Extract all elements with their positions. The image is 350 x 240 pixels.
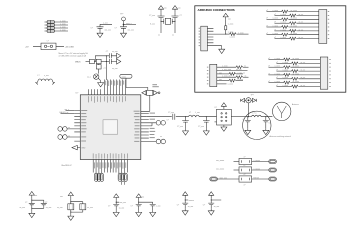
svg-text:xx_xxxx: xx_xxxx bbox=[291, 10, 297, 12]
svg-text:xxx: xxx bbox=[60, 196, 63, 198]
J1 pin stubs bbox=[207, 28, 225, 45]
pad pair P3 bbox=[156, 121, 165, 126]
svg-text:x_xxxx: x_xxxx bbox=[280, 22, 286, 24]
junction cluster2 bottom bbox=[70, 212, 71, 213]
J4 row 7 labels bbox=[268, 81, 299, 83]
power cluster 5 bbox=[183, 192, 188, 199]
J3 row 3 bbox=[217, 73, 243, 76]
svg-text:x?: x? bbox=[274, 14, 276, 16]
pad pair P2 bbox=[58, 135, 67, 140]
wire TP1 net bbox=[124, 24, 137, 26]
solder jumper J6 row 2 bbox=[45, 23, 69, 26]
capacitor C18 bbox=[208, 203, 214, 205]
svg-text:C?: C? bbox=[108, 206, 110, 208]
capacitor C1 bbox=[97, 24, 113, 31]
svg-text:xxx: xxx bbox=[178, 8, 181, 10]
J2 row 8 bbox=[275, 37, 319, 40]
svg-text:xx_xx: xx_xx bbox=[299, 14, 304, 16]
svg-text:x_xxxxx: x_xxxxx bbox=[253, 160, 260, 162]
svg-text:RX/TX: RX/TX bbox=[254, 177, 260, 179]
wire cluster1 bbox=[32, 198, 44, 211]
MCU left pins bbox=[67, 111, 80, 142]
U1 exposed pad bbox=[103, 120, 118, 134]
svg-text:C?: C? bbox=[243, 119, 245, 121]
solder jumper J8 row 4 bbox=[45, 29, 69, 32]
J2 row 4 labels bbox=[274, 22, 303, 24]
svg-text:x_xxxx: x_xxxx bbox=[272, 25, 278, 27]
junction cluster1 bottom bbox=[31, 208, 32, 209]
svg-text:x_xxxx: x_xxxx bbox=[60, 29, 66, 31]
solder jumper J5 row 1 bbox=[45, 20, 69, 23]
wire bus line 6 bbox=[119, 80, 121, 95]
svg-text:C?_xxx: C?_xxx bbox=[168, 112, 174, 114]
wire FB1-FB2 bbox=[94, 61, 96, 63]
ground cluster6 bbox=[208, 209, 214, 215]
svg-text:xxx: xxx bbox=[164, 8, 167, 10]
svg-text:ARDUINO CONNECTORS: ARDUINO CONNECTORS bbox=[198, 8, 235, 12]
svg-text:xx_xxx: xx_xxx bbox=[214, 206, 220, 208]
ground under C8 bbox=[245, 128, 251, 134]
capacitor C16 bbox=[150, 204, 156, 206]
svg-text:xxxx_xxx: xxxx_xxx bbox=[220, 177, 227, 179]
node VBUS_F bbox=[106, 61, 107, 62]
capacitor C12 box bbox=[68, 204, 74, 210]
transistor Q1 bbox=[94, 74, 99, 79]
ground cluster2 bbox=[68, 214, 74, 220]
svg-text:xxx: xxx bbox=[142, 196, 145, 198]
capacitor C15 bbox=[136, 204, 142, 206]
svg-text:C?_xxx: C?_xxx bbox=[149, 15, 155, 17]
node N4 bbox=[265, 116, 266, 117]
power arrow J1 bbox=[223, 13, 228, 20]
svg-text:C?: C? bbox=[203, 205, 205, 207]
MCU bottom pin names bbox=[93, 153, 128, 158]
wire bus line 1 bbox=[104, 80, 106, 95]
wire XTAL left 1 bbox=[66, 110, 75, 112]
svg-text:x_xxxx: x_xxxx bbox=[282, 77, 288, 79]
svg-text:x?: x? bbox=[276, 85, 278, 87]
pad row right bbox=[118, 173, 127, 181]
svg-text:xx_x: xx_x bbox=[87, 77, 91, 79]
wire bus line 3 bbox=[110, 80, 112, 95]
capacitor C20 series bbox=[109, 59, 116, 64]
capacitor C2 bbox=[120, 27, 127, 31]
svg-text:xx_xxxx: xx_xxxx bbox=[291, 25, 297, 27]
wire P3 bbox=[151, 123, 153, 126]
node C8 bbox=[247, 116, 248, 117]
wire TP2 down bbox=[248, 103, 250, 117]
ferrite bead FB1 bbox=[90, 59, 95, 63]
svg-text:C?: C? bbox=[167, 119, 169, 121]
svg-text:x?: x? bbox=[276, 62, 278, 64]
svg-text:L?: L? bbox=[189, 112, 191, 114]
MCU left pin names bbox=[81, 110, 87, 142]
svg-text:Antenna matching network: Antenna matching network bbox=[270, 135, 291, 138]
J3 row 2 labels bbox=[222, 69, 242, 71]
J4 row 3 bbox=[269, 66, 321, 69]
J3 row 5 bbox=[217, 79, 243, 82]
pad row2 bbox=[269, 168, 277, 172]
wire balun out bbox=[231, 116, 243, 118]
svg-text:xx_xxxx: xx_xxxx bbox=[293, 66, 299, 68]
J4 row 1 labels bbox=[268, 58, 299, 60]
svg-text:C?: C? bbox=[177, 205, 179, 207]
capacitor C8 shunt bbox=[245, 117, 251, 129]
wire cluster3 bbox=[116, 200, 119, 210]
capacitor C7 shunt bbox=[203, 117, 210, 129]
pad pair P4 bbox=[156, 139, 165, 144]
svg-text:xx_xxxx: xx_xxxx bbox=[291, 18, 297, 20]
svg-text:xxxxxx: xxxxxx bbox=[189, 200, 194, 202]
svg-text:xx_xxx: xx_xxx bbox=[112, 51, 118, 53]
capacitor C17 bbox=[182, 203, 188, 205]
wire cluster5 bbox=[185, 198, 188, 209]
test point TP1 bbox=[122, 17, 126, 27]
ground cluster4 left bbox=[136, 210, 142, 216]
J4 row 2 labels bbox=[276, 62, 305, 64]
J4 row 8 bbox=[277, 85, 321, 88]
svg-text:x?: x? bbox=[244, 184, 246, 186]
svg-text:C?: C? bbox=[25, 202, 27, 204]
wire bus line 4 bbox=[113, 80, 115, 95]
svg-text:x?: x? bbox=[266, 25, 268, 27]
wire FB3 stub bbox=[98, 63, 100, 66]
crystal X1 bbox=[161, 18, 175, 24]
svg-text:x_xxx: x_xxx bbox=[44, 75, 49, 77]
svg-text:xxxxx: xxxxx bbox=[122, 76, 127, 78]
wire bus line 8 bbox=[125, 80, 127, 95]
svg-text:x_xxxx: x_xxxx bbox=[272, 10, 278, 12]
pad row1 bbox=[269, 160, 277, 164]
J4 pin numbers bbox=[329, 59, 330, 87]
capacitor C19 series bbox=[109, 53, 116, 58]
J4 row 6 bbox=[277, 77, 321, 80]
J4 row 6 labels bbox=[276, 77, 305, 79]
ferrite bead FB3 bbox=[96, 65, 101, 69]
MCU U1 BlueNRG-LP bbox=[80, 95, 141, 160]
svg-text:xx_xxx: xx_xxx bbox=[112, 68, 118, 70]
svg-text:x_xxxx: x_xxxx bbox=[60, 23, 66, 25]
svg-text:x_xxxx: x_xxxx bbox=[227, 84, 233, 86]
coil antenna L2 bbox=[35, 79, 54, 85]
svg-text:C?_xxx: C?_xxx bbox=[198, 126, 204, 128]
ground below balun bbox=[221, 125, 227, 131]
connector J4 bbox=[320, 57, 328, 89]
svg-text:x_xxxx: x_xxxx bbox=[274, 66, 280, 68]
svg-text:xxx: xxx bbox=[219, 72, 222, 74]
svg-text:x?: x? bbox=[266, 10, 268, 12]
J4 row 3 labels bbox=[268, 66, 299, 68]
resistor R1 vertical bbox=[225, 20, 227, 34]
J2 row 8 labels bbox=[274, 37, 303, 39]
J2 pin numbers bbox=[328, 11, 329, 39]
J3 pin numbers bbox=[207, 67, 208, 85]
svg-text:xxx_xxxxx: xxx_xxxxx bbox=[216, 160, 224, 162]
J2 row 6 bbox=[275, 30, 319, 33]
svg-text:x_xxxx: x_xxxx bbox=[280, 37, 286, 39]
svg-text:x?: x? bbox=[244, 165, 246, 167]
wire vertical node bbox=[105, 56, 107, 80]
power cluster 4 bbox=[136, 194, 141, 201]
J3 row 6 bbox=[217, 83, 227, 85]
Arduino connectors frame bbox=[195, 6, 346, 92]
junction cluster6 bbox=[211, 199, 212, 200]
J4 row 5 bbox=[269, 74, 321, 77]
svg-text:x_xxxxx: x_xxxxx bbox=[253, 168, 260, 170]
svg-text:xxxx_x: xxxx_x bbox=[126, 23, 132, 25]
J4 row 8 labels bbox=[276, 85, 305, 87]
svg-text:xx: xx bbox=[244, 66, 246, 68]
junction top branch bbox=[106, 55, 107, 56]
svg-text:C?: C? bbox=[104, 68, 106, 70]
wire stub below pads bbox=[122, 181, 125, 185]
power symbol V2 bbox=[172, 6, 177, 13]
svg-text:C?: C? bbox=[45, 202, 47, 204]
bottom net labels bbox=[94, 162, 126, 168]
svg-text:x?: x? bbox=[244, 174, 246, 176]
svg-text:x?: x? bbox=[274, 29, 276, 31]
svg-text:xxx: xxx bbox=[219, 79, 222, 81]
J2 row 2 bbox=[275, 14, 319, 17]
svg-text:xx_xx: xx_xx bbox=[299, 22, 304, 24]
svg-text:x?: x? bbox=[276, 70, 278, 72]
J2 row 7 bbox=[267, 33, 319, 36]
svg-text:xx: xx bbox=[160, 136, 162, 138]
junction cluster2 top bbox=[70, 201, 71, 202]
svg-text:x?: x? bbox=[274, 22, 276, 24]
solder jumper J7 row 3 bbox=[45, 26, 69, 29]
pad pair P1 bbox=[58, 127, 67, 132]
pad row3 left bbox=[210, 177, 218, 181]
node N2 bbox=[206, 116, 207, 117]
svg-text:x_xxxx: x_xxxx bbox=[282, 70, 288, 72]
junction crystal left bbox=[160, 21, 161, 22]
capacitor C5 series bbox=[173, 114, 189, 120]
capacitor C4 bbox=[172, 12, 179, 33]
svg-text:xx_xxx: xx_xxx bbox=[188, 206, 194, 208]
svg-text:x_xxxx: x_xxxx bbox=[272, 33, 278, 35]
note text bbox=[59, 52, 89, 57]
J4 row 4 labels bbox=[276, 70, 305, 72]
svg-text:x_xxx: x_xxx bbox=[156, 206, 161, 208]
wire bus line 7 bbox=[122, 80, 124, 95]
capacitor C11 bbox=[41, 203, 47, 205]
antenna circle bbox=[273, 102, 291, 120]
svg-text:xx_xxxx: xx_xxxx bbox=[291, 33, 297, 35]
right net labels bbox=[150, 113, 156, 139]
wire FB2 to node bbox=[101, 61, 109, 63]
svg-text:xx_xxx: xx_xxx bbox=[46, 207, 52, 209]
svg-text:x_xxxx: x_xxxx bbox=[274, 58, 280, 60]
MCU top pin names bbox=[88, 96, 126, 103]
J2 row 3 bbox=[267, 18, 319, 21]
diode D2 bbox=[117, 59, 121, 64]
svg-text:L_xxx: L_xxx bbox=[195, 112, 200, 114]
svg-text:xx_xx: xx_xx bbox=[301, 62, 306, 64]
MCU top pins bbox=[89, 89, 101, 95]
resistor R2 bbox=[226, 33, 249, 36]
pad row3 bbox=[269, 177, 277, 181]
wire bus line 2 bbox=[107, 80, 109, 95]
power cluster 2 bbox=[68, 192, 73, 199]
svg-text:TP?: TP? bbox=[120, 14, 123, 16]
bus net labels bbox=[105, 81, 124, 86]
svg-text:xxx: xxx bbox=[35, 195, 38, 197]
ground under C9 bbox=[263, 128, 269, 134]
resistor R4 row 2 bbox=[234, 167, 269, 173]
junction cluster4 bbox=[138, 202, 139, 203]
svg-text:x_xxx_xxxx: x_xxx_xxxx bbox=[222, 69, 231, 71]
svg-text:x_xxxx: x_xxxx bbox=[237, 79, 243, 81]
svg-text:x_xxxx: x_xxxx bbox=[274, 81, 280, 83]
wire branch bend bbox=[95, 56, 109, 62]
svg-text:x_xxxx: x_xxxx bbox=[222, 66, 228, 68]
svg-text:xx_xxx: xx_xxx bbox=[20, 207, 26, 209]
connector J3 bbox=[210, 64, 217, 86]
wire RF mid bbox=[244, 116, 252, 118]
svg-text:x_xxxx: x_xxxx bbox=[272, 18, 278, 20]
capacitor C6 shunt bbox=[182, 117, 189, 129]
svg-text:xx_xx: xx_xx bbox=[301, 70, 306, 72]
junction cluster1 top bbox=[31, 200, 32, 201]
svg-text:L?_x: L?_x bbox=[253, 113, 257, 115]
svg-text:Antenna: Antenna bbox=[292, 103, 299, 106]
svg-text:xx_xxxx: xx_xxxx bbox=[293, 58, 299, 60]
svg-text:x_xxxx: x_xxxx bbox=[60, 26, 66, 28]
svg-text:VBUS: VBUS bbox=[75, 61, 81, 63]
J3 row 5 labels bbox=[219, 79, 243, 81]
J3 row 1 bbox=[217, 66, 249, 69]
J2 row 3 labels bbox=[266, 18, 297, 20]
svg-text:xxx_x: xxx_x bbox=[65, 109, 70, 111]
svg-text:xxx: xxx bbox=[228, 18, 231, 20]
svg-text:x?: x? bbox=[268, 81, 270, 83]
svg-text:x_xxxx: x_xxxx bbox=[228, 24, 234, 26]
power above balun bbox=[221, 103, 226, 110]
svg-text:x_xxxx: x_xxxx bbox=[274, 73, 280, 75]
svg-text:xx_xx: xx_xx bbox=[301, 85, 306, 87]
svg-text:x_xxxx: x_xxxx bbox=[60, 20, 66, 22]
J4 row 4 bbox=[277, 70, 321, 73]
ground under C6 bbox=[183, 129, 189, 135]
J2 row 1 labels bbox=[266, 10, 297, 12]
resistor R5 row 3 bbox=[217, 176, 268, 182]
svg-text:or USB_5MV external supply 0.5: or USB_5MV external supply 0.5A bbox=[59, 54, 87, 57]
capacitor C13 box bbox=[80, 204, 86, 210]
RF line bbox=[147, 116, 172, 118]
wire left 2 bbox=[61, 113, 75, 115]
MCU bottom pins bbox=[93, 160, 127, 174]
ground near Q1 bbox=[98, 81, 104, 87]
svg-text:X_xxx: X_xxx bbox=[150, 23, 155, 25]
capacitor C10 bbox=[29, 203, 35, 205]
wire cluster4 bbox=[139, 200, 153, 210]
ground flag GND left bbox=[72, 145, 80, 149]
svg-text:C?: C? bbox=[91, 28, 93, 30]
junction J1 row3 bbox=[225, 34, 226, 35]
svg-text:GND: GND bbox=[81, 148, 86, 150]
svg-text:C?: C? bbox=[131, 206, 133, 208]
antenna symbol bbox=[277, 106, 286, 118]
balun U2 bbox=[215, 109, 232, 125]
J4 row 5 labels bbox=[268, 73, 299, 75]
svg-text:xx_xx: xx_xx bbox=[301, 77, 306, 79]
svg-text:xx_xx: xx_xx bbox=[299, 37, 304, 39]
power cluster 3 bbox=[114, 194, 119, 201]
inductor L3 bbox=[188, 115, 216, 117]
label Y1 bbox=[152, 84, 158, 87]
svg-text:x_xxx: x_xxx bbox=[103, 23, 108, 25]
flag label BOOT bbox=[120, 74, 132, 87]
svg-text:x_xxxx_xx: x_xxxx_xx bbox=[222, 76, 230, 78]
ground cluster5 bbox=[182, 209, 188, 215]
svg-text:x?: x? bbox=[274, 37, 276, 39]
MCU right pin names bbox=[134, 111, 140, 142]
ground under C2 bbox=[121, 31, 127, 37]
svg-text:xx_xxx: xx_xxx bbox=[57, 207, 63, 209]
svg-text:xx: xx bbox=[172, 35, 174, 37]
svg-text:BALUN_xx: BALUN_xx bbox=[60, 111, 69, 114]
J2 row 7 labels bbox=[266, 33, 297, 35]
J2 row 5 bbox=[267, 26, 319, 29]
svg-text:xx_xxxx: xx_xxxx bbox=[293, 73, 299, 75]
power symbol V1 bbox=[158, 6, 163, 13]
pad row left bbox=[94, 173, 103, 181]
resistor R3 row 1 bbox=[234, 158, 269, 164]
J4 row 1 bbox=[269, 58, 321, 61]
svg-text:xx_xxxx: xx_xxxx bbox=[293, 81, 299, 83]
ground cluster1 bbox=[29, 211, 35, 217]
J3 row 3 labels bbox=[219, 72, 245, 74]
svg-text:x_xxx_xx: x_xxx_xx bbox=[237, 72, 245, 74]
power cluster 6 bbox=[209, 192, 214, 199]
svg-text:C?_xxx: C?_xxx bbox=[177, 126, 183, 128]
svg-text:x?: x? bbox=[266, 18, 268, 20]
J2 row 5 labels bbox=[266, 25, 297, 27]
svg-text:xx: xx bbox=[68, 135, 70, 137]
capacitor C3 bbox=[158, 12, 165, 33]
power cluster 1 bbox=[29, 192, 34, 199]
svg-text:x_xxxx: x_xxxx bbox=[282, 62, 288, 64]
wire cluster6 bbox=[211, 198, 221, 209]
J3 row 2 bbox=[217, 70, 248, 72]
J1 pin numbers bbox=[199, 28, 200, 46]
wire Q1 to gnd bbox=[98, 78, 100, 80]
ground under C1 bbox=[97, 31, 103, 37]
svg-text:IC?: IC? bbox=[76, 92, 79, 94]
svg-text:x_xxxx: x_xxxx bbox=[280, 29, 286, 31]
clock oscillator Y1 bbox=[142, 90, 160, 95]
capacitor C14 bbox=[113, 204, 119, 206]
svg-text:C?: C? bbox=[269, 122, 271, 124]
J2 row 4 bbox=[275, 22, 319, 25]
svg-text:xx: xx bbox=[68, 127, 70, 129]
ground under C7 bbox=[203, 129, 209, 135]
svg-text:C?: C? bbox=[180, 15, 182, 17]
RF test point TP2 bbox=[240, 98, 256, 103]
wire Y1 to MCU bbox=[149, 95, 151, 111]
wire cluster2 bbox=[71, 199, 83, 215]
wire to clock bbox=[126, 88, 148, 91]
svg-text:+5V_USB: +5V_USB bbox=[65, 46, 75, 48]
capacitor C9 shunt bbox=[263, 117, 269, 129]
svg-text:x?: x? bbox=[268, 58, 270, 60]
J3 row 4 labels bbox=[222, 76, 247, 78]
diode D1 bbox=[117, 53, 121, 58]
svg-text:xxx_xxx: xxx_xxx bbox=[120, 202, 126, 204]
svg-text:x?: x? bbox=[268, 66, 270, 68]
J2 row 6 labels bbox=[274, 29, 303, 31]
